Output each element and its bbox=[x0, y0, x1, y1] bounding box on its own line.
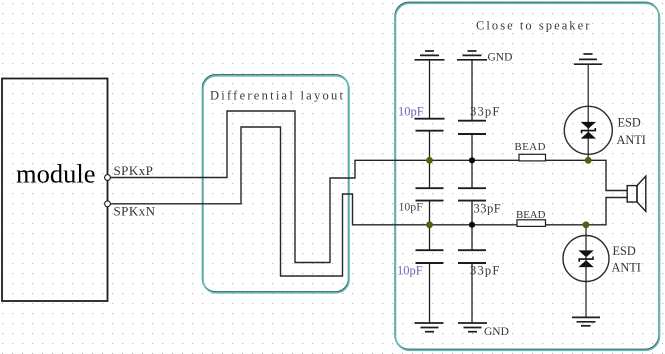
junction node (SPKxN / C4) bbox=[469, 222, 475, 228]
capacitor C4 33pF (middle, second column) bbox=[458, 160, 486, 225]
svg-text:33pF: 33pF bbox=[470, 264, 501, 278]
pin SPKxP (module output pin) bbox=[105, 175, 111, 181]
junction node (SPKxP / C1) bbox=[426, 157, 433, 164]
differential layout zone box (shadow layer) bbox=[203, 75, 349, 292]
junction node (SPKxP / ESD D1) bbox=[585, 157, 592, 164]
svg-text:33pF: 33pF bbox=[470, 105, 501, 119]
ground (below ESD diode D2) bbox=[572, 317, 600, 325]
svg-text:module: module bbox=[16, 159, 96, 189]
ground (below C6 column) bbox=[458, 323, 487, 332]
ESD protection diode D2 (bidirectional TVS in circle) bbox=[563, 236, 609, 282]
wire (top ground to ESD D1 through circle) bbox=[587, 64, 589, 160]
ground (inverted earth, above ESD diode D1) bbox=[574, 54, 602, 64]
ferrite bead FB2 (on SPKxN net) bbox=[517, 220, 546, 227]
junction node (SPKxN / C3) bbox=[426, 221, 433, 228]
close-to-speaker zone box bbox=[396, 3, 660, 350]
ESD protection diode D1 (bidirectional TVS in circle) bbox=[564, 106, 612, 154]
pin SPKxN (module output pin) bbox=[105, 201, 111, 207]
svg-text:BEAD: BEAD bbox=[516, 209, 546, 221]
junction node (SPKxN / ESD D2) bbox=[583, 221, 590, 228]
wire SPKxP net (module pin to speaker +, serpentine differential trace) bbox=[110, 111, 627, 263]
ground (below C5 column) bbox=[415, 323, 444, 332]
svg-text:33pF: 33pF bbox=[474, 202, 502, 216]
ferrite bead FB1 (on SPKxP net) bbox=[519, 154, 546, 161]
svg-text:ANTI: ANTI bbox=[617, 133, 646, 147]
capacitor C6 33pF (bottom, second column) bbox=[458, 225, 486, 323]
svg-text:SPKxP: SPKxP bbox=[114, 163, 154, 178]
svg-text:ANTI: ANTI bbox=[612, 261, 641, 275]
svg-text:10pF: 10pF bbox=[397, 264, 423, 278]
svg-text:BEAD: BEAD bbox=[515, 141, 546, 153]
ground (inverted earth, above C2 column, with GND name) bbox=[457, 51, 487, 121]
junction node (SPKxP / C2) bbox=[469, 157, 475, 163]
svg-text:ESD: ESD bbox=[613, 244, 636, 258]
svg-text:ESD: ESD bbox=[618, 116, 641, 130]
capacitor C3 10pF (middle left column, between nets) bbox=[416, 160, 444, 225]
capacitor C5 10pF (bottom left column) bbox=[416, 225, 444, 323]
svg-text:GND: GND bbox=[484, 326, 509, 338]
differential layout zone box bbox=[203, 76, 349, 293]
svg-text:10pF: 10pF bbox=[399, 200, 424, 214]
module U1 (box) bbox=[2, 79, 108, 302]
capacitor C1 10pF (top left column) bbox=[415, 119, 445, 161]
svg-text:GND: GND bbox=[488, 52, 513, 64]
close-to-speaker zone box (shadow layer) bbox=[395, 2, 659, 349]
speaker LS1 bbox=[627, 176, 646, 211]
svg-text:SPKxN: SPKxN bbox=[114, 204, 156, 219]
svg-text:Differential layout: Differential layout bbox=[210, 89, 345, 103]
capacitor C2 33pF (top, second column) bbox=[458, 121, 486, 161]
wire (ESD D2 down to ground) bbox=[585, 225, 587, 317]
ground (inverted earth, above C1 column) bbox=[415, 51, 445, 119]
wire SPKxN net (module pin to speaker -, serpentine differential trace) bbox=[110, 127, 627, 276]
svg-text:Close to speaker: Close to speaker bbox=[476, 19, 591, 33]
svg-text:10pF: 10pF bbox=[398, 105, 424, 119]
